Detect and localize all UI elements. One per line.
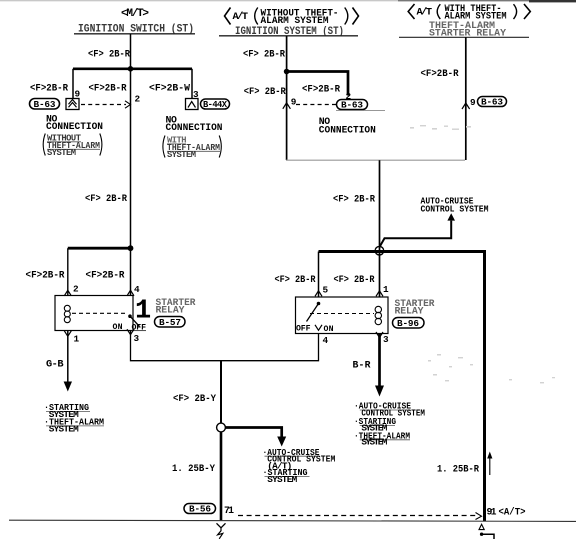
svg-text:<F>2B-R: <F>2B-R: [26, 270, 65, 281]
svg-text:<F>2B-W: <F>2B-W: [149, 83, 190, 94]
node junction M/T top: [128, 66, 134, 72]
svg-text:OFF: OFF: [296, 325, 311, 334]
svg-text:<F> 2B-R: <F> 2B-R: [88, 49, 130, 60]
svg-text:<F> 2B-R: <F> 2B-R: [243, 48, 285, 59]
svg-text:B-57: B-57: [159, 317, 181, 328]
svg-text:B-63: B-63: [341, 100, 363, 111]
svg-text:B-63: B-63: [481, 97, 503, 108]
svg-text:1: 1: [74, 334, 80, 345]
note no connection right: [166, 115, 223, 134]
pin 3 arrow: [376, 332, 383, 338]
svg-text:71: 71: [224, 505, 234, 516]
connector arrow on mid line: [283, 103, 291, 109]
svg-text:<F>2B-R: <F>2B-R: [421, 68, 459, 79]
header underline M/T: [74, 33, 195, 35]
svg-text:<A/T>: <A/T>: [499, 507, 526, 518]
svg-text:4: 4: [323, 335, 329, 346]
svg-text:ON: ON: [113, 323, 123, 332]
svg-text:9: 9: [291, 97, 297, 108]
connector pill B-63: [30, 99, 60, 111]
connector pill B-63 mid: [336, 100, 385, 111]
wire: top branch horizontal: [73, 67, 192, 70]
wire: branch to auto-cruise A/T: [225, 428, 281, 438]
svg-text:RELAY: RELAY: [395, 305, 424, 316]
svg-text:1. 25B-R: 1. 25B-R: [437, 464, 479, 475]
svg-text:3: 3: [134, 333, 140, 344]
wire: pin5 vertical: [318, 252, 320, 298]
svg-text:<F> 2B-R: <F> 2B-R: [334, 274, 375, 285]
svg-text:A/T: A/T: [233, 11, 249, 23]
svg-text:<F> 2B-R: <F> 2B-R: [333, 194, 375, 205]
pin 1 arrow: [64, 331, 71, 337]
svg-text:<F>2B-R: <F>2B-R: [302, 84, 340, 95]
relay B-96 coil: [375, 306, 381, 324]
svg-text:9: 9: [470, 97, 476, 108]
scan edge top: [0, 0, 576, 2]
note without theft-alarm system: [43, 134, 102, 159]
relay B-57 dashed link: [72, 312, 126, 314]
svg-text:CONNECTION: CONNECTION: [166, 122, 223, 133]
connector pill B-63 right: [478, 97, 507, 108]
svg-text:5: 5: [323, 285, 329, 296]
svg-text:ALARM SYSTEM: ALARM SYSTEM: [261, 15, 329, 26]
pin 5 arrow: [315, 291, 322, 297]
arrow to auto-cruise: [447, 213, 455, 220]
wire: theft-alarm relay vertical: [465, 37, 467, 160]
pin 4 arrow: [127, 290, 134, 296]
svg-text:SYSTEM: SYSTEM: [361, 437, 387, 448]
wire: B-R thick to arrow: [378, 333, 381, 386]
svg-text:SYSTEM: SYSTEM: [47, 148, 76, 158]
wire: thick bus to right: [319, 252, 485, 522]
connector pill B-57: [155, 317, 186, 329]
connector pill B-96: [393, 318, 425, 330]
svg-text:1: 1: [383, 284, 389, 295]
svg-text:SYSTEM: SYSTEM: [167, 150, 196, 160]
node crossover circle right: [375, 246, 384, 255]
svg-text:2: 2: [73, 284, 79, 295]
wire: mid-lower vertical to relay: [379, 160, 381, 297]
connector continuation symbol right: [479, 524, 494, 539]
wire: auto-cruise branch: [379, 221, 451, 248]
wire: 2B-Y vertical: [220, 361, 222, 424]
svg-text:B-96: B-96: [397, 318, 419, 329]
wire: M/T relay thick branch: [68, 247, 131, 250]
wire: A/T mid vertical: [286, 36, 288, 160]
svg-text:4: 4: [134, 284, 140, 295]
svg-text:91: 91: [487, 507, 497, 518]
connector continuation symbol mid: [217, 523, 226, 539]
svg-text:CONNECTION: CONNECTION: [46, 121, 103, 132]
header underline A/T mid: [219, 35, 358, 37]
node dot left: [128, 245, 134, 251]
wire: drop to B-63: [72, 69, 74, 99]
wire: dashed no-connection mid: [296, 104, 336, 106]
svg-text:A/T: A/T: [417, 6, 433, 18]
svg-text:SYSTEM: SYSTEM: [267, 474, 297, 485]
svg-text:1. 25B-Y: 1. 25B-Y: [172, 463, 215, 474]
svg-text:<F> 2B-Y: <F> 2B-Y: [173, 393, 216, 404]
relay B-57 switch: [113, 314, 147, 332]
relay B-57 box: [55, 296, 133, 331]
connector symbol B-44X: [186, 99, 199, 110]
connector symbol B-63: [66, 99, 79, 110]
svg-text:<F>2B-R: <F>2B-R: [30, 83, 68, 94]
arrow dashed end: [476, 513, 482, 520]
page edge line: [9, 520, 576, 521]
scan noise: [410, 125, 555, 383]
pin 1 arrow: [376, 291, 383, 297]
pin 3 arrow: [127, 329, 134, 334]
svg-text:B-44X: B-44X: [203, 100, 228, 110]
svg-text:<F>2B-R: <F>2B-R: [89, 83, 127, 94]
note no connection mid: [319, 116, 376, 136]
svg-text:<F> 2B-R: <F> 2B-R: [275, 274, 316, 285]
wire: dashed connector link: [238, 515, 477, 517]
direction arrow up: [487, 452, 492, 476]
connector arrow on right line: [462, 103, 470, 109]
svg-text:G-B: G-B: [46, 359, 64, 371]
svg-text:B-63: B-63: [34, 99, 56, 110]
svg-text:ON: ON: [324, 325, 334, 334]
wire: pin4 vertical: [130, 248, 132, 295]
note with theft-alarm system: [163, 136, 221, 161]
relay B-96 box: [296, 297, 389, 334]
note starting / theft-alarm system: [44, 402, 104, 435]
relay B-96 name: [395, 298, 435, 316]
header A/T with theft-alarm: [408, 3, 530, 22]
svg-text:9: 9: [75, 89, 81, 100]
svg-text:<F>2B-R: <F>2B-R: [86, 270, 125, 281]
svg-text:1: 1: [135, 297, 151, 327]
svg-text:B-56: B-56: [189, 504, 211, 515]
wire: pin2 vertical: [67, 248, 69, 295]
relay B-96 switch: [296, 302, 334, 334]
node junction mid: [284, 69, 290, 75]
pin 4 arrow: [315, 325, 322, 331]
relay B-57 coil: [64, 305, 70, 322]
svg-text:<M/T>: <M/T>: [121, 8, 149, 20]
arrow G-B: [64, 382, 72, 392]
svg-text:3: 3: [383, 334, 389, 345]
svg-text:CONTROL SYSTEM: CONTROL SYSTEM: [421, 203, 489, 214]
arrow B-R: [375, 386, 384, 397]
svg-text:<F> 2B-R: <F> 2B-R: [85, 193, 127, 204]
svg-text:RELAY: RELAY: [156, 304, 185, 315]
wire: pin3 to pin4 link: [131, 331, 319, 361]
node crossover circle bottom: [217, 423, 226, 432]
wire: 1.25B-Y vertical: [220, 432, 223, 521]
svg-text:<F> 2B-R: <F> 2B-R: [244, 86, 286, 97]
relay B-96 dashed link: [310, 313, 374, 315]
svg-text:SYSTEM: SYSTEM: [49, 424, 79, 435]
wire: G-B to starting system: [67, 331, 69, 383]
bus bar gray line: [286, 159, 465, 161]
arrow auto-cruise A/T: [277, 437, 286, 447]
connector pill B-44X: [201, 99, 230, 110]
pin 2 arrow: [64, 290, 71, 296]
svg-text:2: 2: [135, 94, 141, 105]
note no connection left: [46, 114, 103, 133]
wire: dashed no-connection left: [81, 104, 126, 106]
note right systems block: [354, 401, 425, 448]
header A/T without theft-alarm: [225, 7, 359, 26]
relay B-57 name: [156, 297, 196, 315]
wire: mid branch to B-63 pin2: [287, 72, 348, 96]
arrow into main line: [125, 101, 131, 108]
note auto-cruise (A/T) starting block: [263, 447, 336, 485]
wire: M/T main vertical: [130, 34, 132, 248]
connector pill B-56: [184, 504, 216, 515]
svg-text:CONNECTION: CONNECTION: [319, 124, 376, 135]
svg-text:B-R: B-R: [353, 360, 371, 371]
header underline right: [399, 36, 529, 38]
wire: drop to B-44X: [191, 69, 193, 99]
note auto-cruise control system: [421, 195, 489, 214]
